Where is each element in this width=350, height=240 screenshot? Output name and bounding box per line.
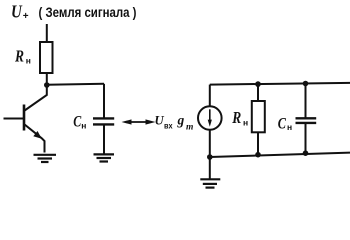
bottom rail wire (right circuit) bbox=[210, 153, 350, 157]
wire resistor bottom to node A bbox=[46, 73, 48, 85]
transistor Q1 base wire bbox=[4, 118, 24, 120]
svg-text:н: н bbox=[287, 122, 292, 132]
label R_H (right) bbox=[231, 108, 248, 128]
svg-text:н: н bbox=[81, 120, 86, 130]
ground (left C_H) bbox=[94, 154, 115, 161]
current source U_vx g_m circle bbox=[198, 106, 222, 130]
wire top rail to capacitor C_H (right) bbox=[305, 84, 307, 118]
svg-text:g: g bbox=[177, 112, 185, 127]
svg-text:m: m bbox=[186, 121, 193, 131]
capacitor C_H (right) plates bbox=[296, 118, 317, 123]
resistor R_H (right) bbox=[252, 101, 265, 132]
svg-text:U: U bbox=[11, 2, 23, 22]
wire current source to bottom rail bbox=[209, 130, 211, 157]
current source arrow (down) bbox=[208, 109, 212, 127]
svg-text:( Земля сигнала ): ( Земля сигнала ) bbox=[39, 5, 137, 20]
svg-text:R: R bbox=[231, 108, 241, 127]
svg-text:н: н bbox=[26, 55, 31, 65]
label R_H (left) bbox=[14, 47, 31, 66]
node A junction dot bbox=[44, 82, 50, 88]
svg-text:C: C bbox=[73, 114, 81, 131]
capacitor C_H (left) plates bbox=[93, 118, 114, 124]
transistor Q1 emitter with arrow bbox=[25, 125, 45, 153]
wire from U+ down to resistor R_H bbox=[46, 24, 48, 42]
wire down to capacitor C_H (left) bbox=[103, 84, 105, 118]
wire top rail corner down to current source bbox=[209, 85, 211, 107]
ground (emitter of Q1) bbox=[34, 155, 57, 162]
wire bottom rail to ground bbox=[209, 157, 211, 179]
node dot bottom of R_H (right) bbox=[255, 152, 261, 158]
top rail wire (right circuit) bbox=[210, 83, 350, 85]
node U+ label: U+ (Земля сигнала) bbox=[11, 2, 137, 22]
wire top rail to resistor R_H (right) bbox=[257, 84, 259, 101]
equivalence double arrow bbox=[122, 119, 156, 124]
svg-text:U: U bbox=[155, 112, 165, 127]
resistor R_H (left) bbox=[40, 42, 53, 73]
wire capacitor to ground bbox=[103, 124, 105, 154]
svg-text:н: н bbox=[243, 118, 248, 128]
wire collector: node A down to transistor bbox=[25, 85, 47, 111]
wire resistor to bottom rail (right) bbox=[257, 132, 259, 154]
label U_vx g_m bbox=[155, 112, 194, 131]
transistor Q1 base bar bbox=[23, 105, 26, 131]
svg-text:+: + bbox=[23, 11, 29, 22]
svg-text:вх: вх bbox=[164, 121, 173, 131]
svg-text:C: C bbox=[278, 115, 286, 132]
node dot top of R_H (right) bbox=[255, 81, 261, 87]
node dot current source bottom bbox=[207, 154, 213, 160]
wire node A to capacitor branch (horizontal) bbox=[47, 84, 104, 85]
label C_H (left) bbox=[73, 114, 86, 131]
svg-text:R: R bbox=[14, 47, 24, 66]
ground (right circuit) bbox=[200, 179, 220, 187]
node dot bottom of C_H (right) bbox=[303, 150, 309, 156]
label C_H (right) bbox=[278, 115, 292, 132]
wire capacitor to bottom rail (right) bbox=[305, 123, 307, 153]
node dot top of C_H (right) bbox=[303, 81, 309, 87]
